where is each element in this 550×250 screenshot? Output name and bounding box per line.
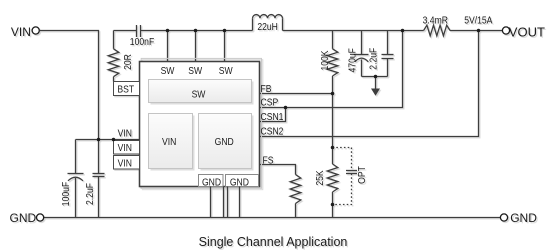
- svg-text:5V/15A: 5V/15A: [464, 15, 493, 27]
- wire CSN1 net: [260, 108, 286, 122]
- svg-text:3.4mR: 3.4mR: [423, 15, 448, 27]
- svg-text:GND: GND: [215, 136, 234, 148]
- capacitor 2.2uF input: [84, 140, 104, 218]
- svg-text:FB: FB: [261, 83, 272, 95]
- svg-text:100K: 100K: [319, 50, 331, 71]
- svg-text:VOUT: VOUT: [509, 25, 545, 40]
- wire CSP net: [260, 31, 403, 108]
- wire GND pins: [211, 187, 240, 218]
- pin GND 2: [226, 175, 259, 189]
- capacitor 100uF: [60, 140, 83, 219]
- svg-text:FS: FS: [263, 155, 274, 167]
- svg-text:VIN: VIN: [118, 128, 132, 140]
- svg-text:100uF: 100uF: [60, 182, 72, 207]
- capacitor 100nF: [130, 25, 155, 48]
- terminal GND left: [10, 211, 44, 225]
- svg-text:SW: SW: [161, 65, 176, 77]
- svg-text:VIN: VIN: [118, 142, 132, 154]
- svg-text:2.2uF: 2.2uF: [368, 48, 380, 70]
- svg-text:25K: 25K: [314, 170, 326, 186]
- resistor 20R: [108, 49, 134, 77]
- terminal VIN: [11, 25, 39, 39]
- pin VIN 2: [114, 141, 140, 155]
- resistor 100K: [319, 31, 338, 94]
- terminal GND right: [500, 211, 537, 225]
- svg-text:22uH: 22uH: [257, 21, 278, 33]
- resistor 25K: [314, 148, 338, 218]
- svg-text:OPT: OPT: [356, 166, 368, 184]
- svg-text:470uF: 470uF: [347, 48, 359, 73]
- svg-text:CSN2: CSN2: [261, 126, 284, 138]
- svg-text:VIN: VIN: [118, 158, 132, 170]
- wire ground rail: [44, 217, 501, 219]
- capacitor OPT: [333, 148, 369, 205]
- wire CSN2 net: [260, 31, 479, 137]
- resistor 3.4mR: [423, 15, 450, 36]
- IC U1 VIN block: [149, 114, 195, 171]
- svg-text:SW: SW: [219, 65, 234, 77]
- svg-text:100nF: 100nF: [130, 36, 155, 48]
- wire VIN input rail: [39, 31, 139, 140]
- wire output caps to ground: [362, 76, 388, 78]
- pin VIN 3: [114, 156, 140, 170]
- svg-text:2.2uF: 2.2uF: [84, 183, 96, 205]
- terminal VOUT: [502, 25, 545, 40]
- IC U1 GND block: [199, 114, 254, 171]
- svg-text:SW: SW: [188, 65, 203, 77]
- IC U1 SW block: [149, 80, 254, 105]
- svg-text:BST: BST: [117, 84, 134, 96]
- svg-text:SW: SW: [192, 89, 207, 101]
- svg-text:VIN: VIN: [162, 136, 176, 148]
- svg-text:CSP: CSP: [261, 97, 279, 109]
- wire VOUT rail: [283, 30, 503, 32]
- svg-text:VIN: VIN: [11, 25, 31, 39]
- pin BST: [114, 82, 140, 96]
- capacitor 470uF: [347, 31, 369, 77]
- wire BST branch: [114, 31, 137, 82]
- ground arrow: [371, 77, 380, 96]
- capacitor 2.2uF output: [368, 31, 394, 77]
- svg-text:GND: GND: [202, 177, 221, 189]
- wire FS net: [260, 165, 296, 175]
- svg-text:Single Channel Application: Single Channel Application: [199, 235, 348, 249]
- wire FB net: [260, 94, 333, 148]
- resistor FS set: [290, 175, 301, 218]
- svg-text:GND: GND: [10, 211, 37, 225]
- svg-text:GND: GND: [510, 211, 537, 225]
- wire SW top rail: [141, 31, 253, 62]
- IC U1 outline: [140, 58, 262, 188]
- inductor 22uH: [253, 15, 283, 34]
- svg-text:CSN1: CSN1: [261, 111, 284, 123]
- pin GND 1: [199, 175, 224, 189]
- svg-text:20R: 20R: [122, 54, 134, 70]
